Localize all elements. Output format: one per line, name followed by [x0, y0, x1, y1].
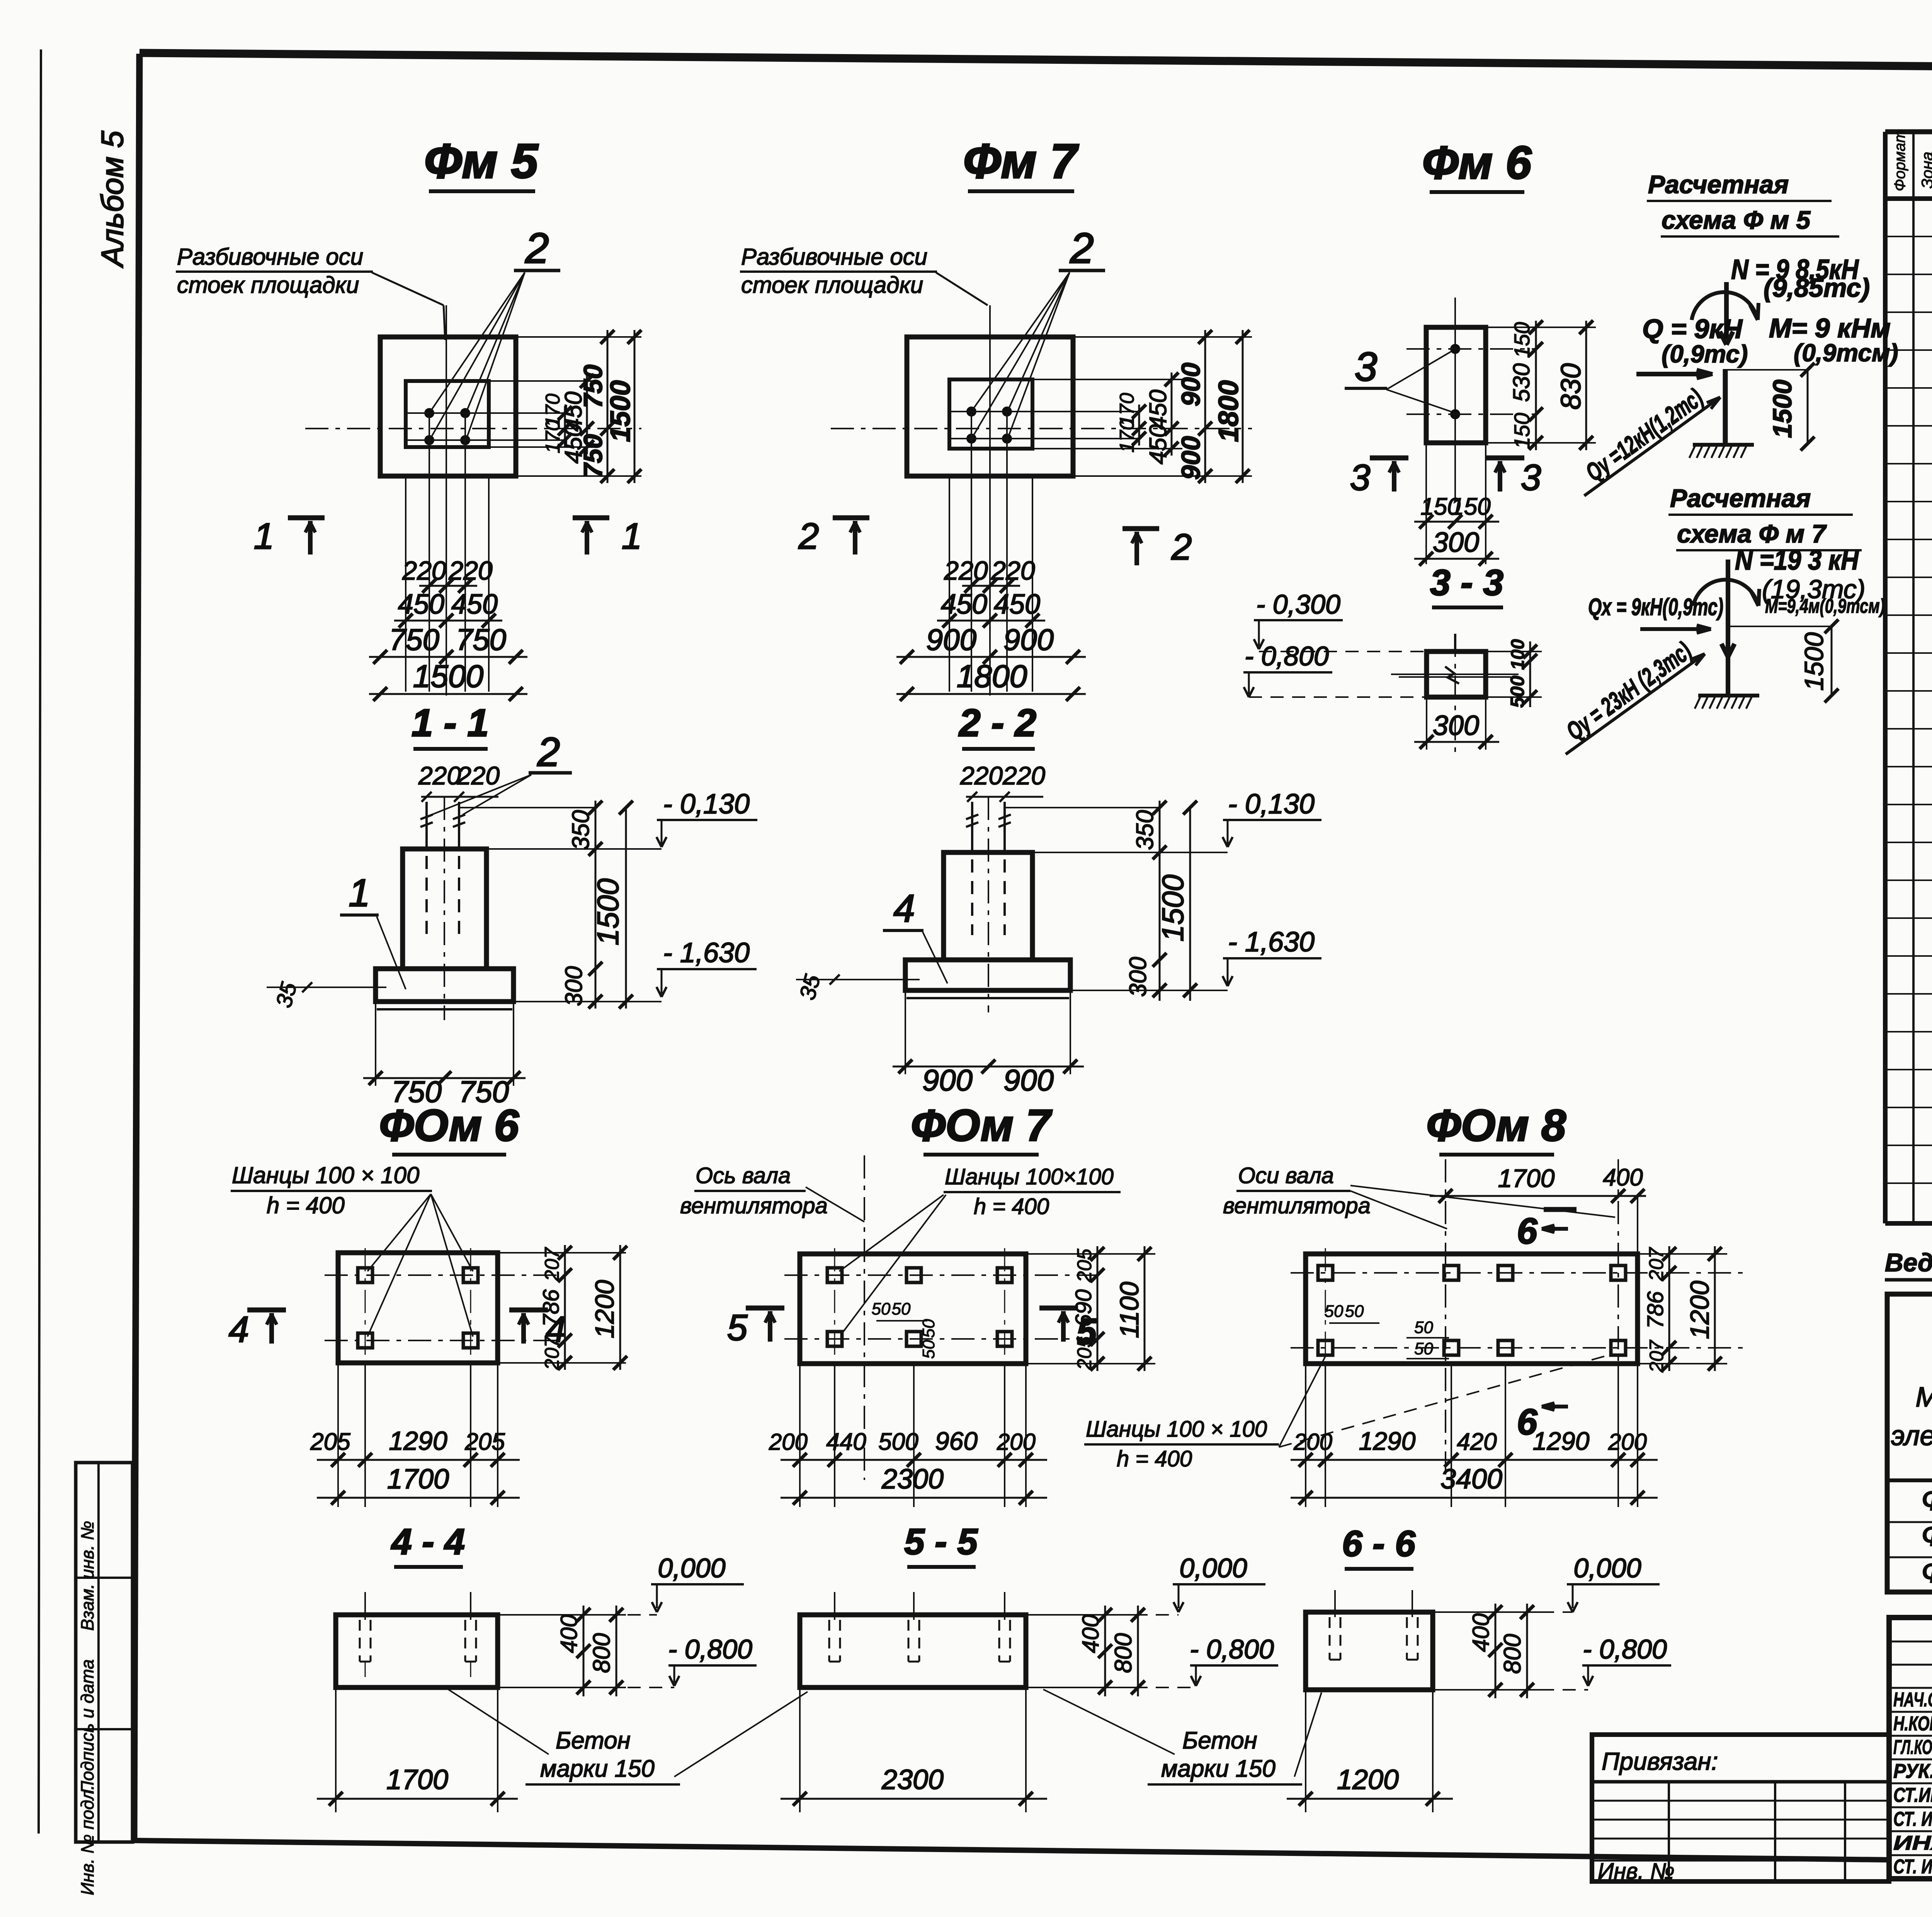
svg-text:1: 1	[254, 516, 274, 557]
svg-text:786: 786	[539, 1289, 564, 1327]
svg-text:1700: 1700	[387, 1464, 449, 1495]
svg-text:100: 100	[1508, 639, 1528, 670]
svg-text:- 0,130: - 0,130	[663, 789, 750, 820]
svg-text:(0,9тсм): (0,9тсм)	[1794, 339, 1898, 367]
svg-text:Ось вала: Ось вала	[696, 1163, 791, 1188]
svg-text:стоек площадки: стоек площадки	[741, 272, 923, 298]
svg-text:Разбивочные оси: Разбивочные оси	[741, 244, 927, 270]
svg-text:900: 900	[1003, 1063, 1054, 1097]
svg-text:170: 170	[1116, 393, 1138, 427]
svg-text:205: 205	[1073, 1336, 1096, 1371]
svg-text:2 - 2: 2 - 2	[958, 701, 1036, 745]
svg-text:НАЧ.ОТД.: НАЧ.ОТД.	[1893, 1689, 1932, 1711]
svg-text:Ведомость расхода стали на эле: Ведомость расхода стали на элемент, КГ	[1885, 1248, 1932, 1277]
svg-text:0,000: 0,000	[1179, 1553, 1247, 1583]
svg-text:2300: 2300	[881, 1764, 944, 1795]
svg-text:стоек площадки: стоек площадки	[177, 272, 359, 298]
svg-text:3: 3	[1521, 457, 1541, 498]
svg-text:- 1,630: - 1,630	[1228, 927, 1315, 958]
svg-text:N =19 3 кН: N =19 3 кН	[1735, 545, 1859, 576]
svg-text:350: 350	[1132, 810, 1158, 850]
svg-text:Формат: Формат	[1891, 130, 1908, 191]
svg-text:450: 450	[1145, 424, 1172, 464]
svg-text:200: 200	[1293, 1429, 1332, 1455]
svg-text:Шанцы 100 × 100: Шанцы 100 × 100	[1086, 1417, 1267, 1442]
svg-text:РУК.ГР.: РУК.ГР.	[1893, 1760, 1932, 1783]
svg-text:Фм 5: Фм 5	[1921, 1482, 1932, 1517]
svg-text:900: 900	[926, 623, 976, 657]
svg-text:900: 900	[1003, 623, 1054, 657]
svg-text:207: 207	[1645, 1247, 1668, 1282]
svg-text:Шанцы 100 × 100: Шанцы 100 × 100	[232, 1162, 419, 1188]
svg-text:Фм 7: Фм 7	[1921, 1555, 1932, 1589]
svg-text:Марка: Марка	[1916, 1382, 1932, 1413]
svg-text:220: 220	[457, 761, 500, 790]
svg-text:220: 220	[960, 761, 1003, 790]
svg-text:СТ. ИНЖ.: СТ. ИНЖ.	[1893, 1808, 1932, 1830]
svg-text:марки 150: марки 150	[1161, 1755, 1276, 1782]
svg-text:750: 750	[456, 623, 506, 657]
svg-text:- 0,800: - 0,800	[1190, 1634, 1274, 1664]
svg-text:800: 800	[588, 1633, 615, 1673]
svg-text:786: 786	[1643, 1291, 1668, 1329]
svg-text:2300: 2300	[881, 1464, 944, 1495]
svg-text:Взам. инв. №: Взам. инв. №	[77, 1521, 97, 1631]
svg-text:вентилятора: вентилятора	[680, 1193, 828, 1218]
svg-text:Расчетная: Расчетная	[1648, 170, 1789, 199]
svg-text:СТ.ИНЖ.: СТ.ИНЖ.	[1893, 1784, 1932, 1806]
svg-text:50: 50	[892, 1300, 911, 1318]
svg-text:Фм 6: Фм 6	[1422, 137, 1532, 189]
svg-text:Зона: Зона	[1918, 151, 1932, 189]
svg-text:3 - 3: 3 - 3	[1430, 562, 1503, 603]
svg-text:690: 690	[1071, 1289, 1096, 1327]
svg-text:схема Ф м 5: схема Ф м 5	[1662, 206, 1811, 234]
svg-text:Фм 6: Фм 6	[1921, 1518, 1932, 1552]
svg-text:420: 420	[1457, 1429, 1497, 1455]
svg-text:900: 900	[1176, 436, 1206, 480]
svg-text:1500: 1500	[1799, 632, 1829, 691]
svg-text:Q = 9кН: Q = 9кН	[1642, 314, 1743, 344]
svg-text:Разбивочные оси: Разбивочные оси	[177, 244, 363, 270]
svg-text:Бетон: Бетон	[556, 1727, 631, 1754]
svg-text:450: 450	[994, 589, 1040, 620]
svg-text:1290: 1290	[1359, 1427, 1416, 1455]
svg-text:220: 220	[418, 761, 461, 790]
svg-text:1500: 1500	[591, 878, 625, 946]
svg-text:300: 300	[1433, 710, 1479, 741]
svg-text:530: 530	[1509, 363, 1534, 402]
svg-text:h = 400: h = 400	[267, 1192, 345, 1218]
svg-text:50: 50	[872, 1300, 891, 1318]
svg-text:300: 300	[1433, 527, 1479, 558]
svg-text:4: 4	[229, 1309, 249, 1350]
svg-text:400: 400	[1468, 1613, 1494, 1652]
svg-text:ФОм 8: ФОм 8	[1426, 1101, 1566, 1150]
svg-text:Оси вала: Оси вала	[1238, 1163, 1334, 1188]
svg-text:205: 205	[464, 1429, 505, 1455]
svg-text:220: 220	[402, 556, 446, 585]
svg-text:220: 220	[944, 556, 988, 585]
svg-text:50: 50	[919, 1319, 938, 1338]
svg-text:1290: 1290	[389, 1426, 447, 1456]
svg-text:500: 500	[1507, 675, 1528, 708]
svg-text:1: 1	[349, 871, 370, 915]
svg-text:1 - 1: 1 - 1	[412, 701, 489, 745]
svg-text:(9,85тс): (9,85тс)	[1764, 273, 1870, 303]
svg-text:900: 900	[922, 1063, 973, 1097]
svg-text:750: 750	[578, 434, 608, 478]
svg-text:Привязан:: Привязан:	[1602, 1747, 1718, 1775]
svg-text:3400: 3400	[1440, 1464, 1502, 1495]
svg-text:Инв. № подл.: Инв. № подл.	[77, 1785, 97, 1895]
svg-text:- 0,800: - 0,800	[1583, 1634, 1667, 1664]
svg-text:Фм 5: Фм 5	[424, 134, 539, 188]
svg-text:1500: 1500	[1768, 379, 1797, 438]
svg-text:1500: 1500	[605, 380, 636, 442]
svg-text:207: 207	[541, 1336, 563, 1371]
svg-text:5: 5	[727, 1307, 748, 1348]
svg-text:1700: 1700	[386, 1764, 448, 1795]
svg-text:- 0,300: - 0,300	[1256, 589, 1340, 619]
svg-text:Бетон: Бетон	[1182, 1727, 1257, 1754]
svg-text:440: 440	[826, 1429, 866, 1455]
svg-text:150: 150	[1451, 493, 1490, 520]
svg-text:(0,9тс): (0,9тс)	[1662, 340, 1748, 368]
svg-text:5 - 5: 5 - 5	[904, 1521, 978, 1562]
svg-text:50: 50	[1345, 1302, 1364, 1321]
svg-text:0,000: 0,000	[658, 1553, 725, 1583]
svg-text:2: 2	[798, 516, 819, 557]
svg-text:1800: 1800	[957, 659, 1027, 694]
svg-text:750: 750	[578, 364, 608, 408]
svg-text:схема Ф м 7: схема Ф м 7	[1677, 519, 1827, 548]
svg-text:Qх = 9кН(0,9тс): Qх = 9кН(0,9тс)	[1588, 594, 1723, 621]
svg-text:2: 2	[525, 225, 549, 272]
svg-text:1500: 1500	[1156, 874, 1190, 942]
svg-text:марки 150: марки 150	[540, 1755, 655, 1782]
svg-text:h = 400: h = 400	[974, 1194, 1049, 1219]
svg-text:1200: 1200	[590, 1280, 619, 1338]
svg-text:1500: 1500	[413, 659, 483, 694]
svg-text:Шанцы 100×100: Шанцы 100×100	[945, 1164, 1114, 1189]
svg-text:150: 150	[1510, 322, 1534, 358]
svg-text:50: 50	[1414, 1339, 1433, 1358]
svg-text:Инв. №: Инв. №	[1598, 1859, 1675, 1884]
svg-text:200: 200	[769, 1429, 808, 1455]
svg-text:450: 450	[398, 589, 444, 620]
svg-text:960: 960	[935, 1427, 978, 1455]
svg-text:элемента: элемента	[1891, 1420, 1932, 1451]
svg-text:400: 400	[556, 1614, 582, 1653]
svg-text:ГЛ.КОНСТ.: ГЛ.КОНСТ.	[1893, 1736, 1932, 1759]
svg-text:M=9,4м(0,9тсм): M=9,4м(0,9тсм)	[1765, 595, 1885, 617]
svg-text:ФОм 6: ФОм 6	[379, 1101, 519, 1150]
svg-text:450: 450	[941, 589, 987, 620]
svg-text:830: 830	[1556, 363, 1587, 410]
svg-text:800: 800	[1110, 1633, 1137, 1673]
svg-text:450: 450	[451, 589, 498, 620]
svg-text:200: 200	[997, 1429, 1036, 1455]
svg-text:1800: 1800	[1213, 380, 1244, 442]
svg-text:Н.КОНТР.: Н.КОНТР.	[1893, 1713, 1932, 1735]
svg-text:3: 3	[1350, 457, 1371, 498]
svg-text:1700: 1700	[1498, 1164, 1555, 1192]
svg-text:2: 2	[1070, 225, 1094, 272]
svg-text:ФОм 7: ФОм 7	[911, 1101, 1053, 1150]
svg-text:Расчетная: Расчетная	[1670, 484, 1811, 512]
svg-text:220: 220	[1002, 761, 1045, 790]
svg-text:1100: 1100	[1115, 1282, 1144, 1338]
svg-text:205: 205	[1073, 1249, 1096, 1283]
svg-text:1290: 1290	[1533, 1427, 1590, 1455]
svg-text:350: 350	[568, 810, 594, 850]
svg-text:ИНЖ.: ИНЖ.	[1893, 1832, 1932, 1854]
svg-text:205: 205	[310, 1429, 350, 1455]
svg-text:вентилятора: вентилятора	[1223, 1193, 1371, 1218]
svg-text:2: 2	[1171, 527, 1192, 568]
svg-text:1: 1	[622, 516, 642, 557]
svg-text:50: 50	[1414, 1318, 1433, 1337]
svg-text:300: 300	[561, 966, 587, 1006]
svg-text:h = 400: h = 400	[1117, 1446, 1192, 1471]
svg-text:6 - 6: 6 - 6	[1342, 1523, 1416, 1564]
svg-text:200: 200	[1608, 1429, 1647, 1455]
svg-text:Подпись и дата: Подпись и дата	[77, 1659, 97, 1794]
svg-text:- 0,130: - 0,130	[1228, 789, 1315, 820]
svg-text:50: 50	[919, 1340, 938, 1359]
svg-text:400: 400	[1078, 1614, 1104, 1653]
svg-text:- 1,630: - 1,630	[663, 937, 750, 968]
svg-text:750: 750	[389, 623, 439, 657]
svg-text:- 0,800: - 0,800	[1245, 641, 1329, 671]
svg-text:50: 50	[1325, 1302, 1344, 1321]
svg-text:Фм 7: Фм 7	[963, 134, 1079, 188]
svg-text:207: 207	[1646, 1339, 1667, 1373]
svg-text:800: 800	[1499, 1634, 1526, 1674]
svg-text:0,000: 0,000	[1573, 1553, 1641, 1583]
svg-text:СТ. ИНЖ.: СТ. ИНЖ.	[1893, 1856, 1932, 1878]
svg-text:3: 3	[1355, 344, 1377, 390]
svg-text:6: 6	[1517, 1211, 1538, 1252]
svg-text:400: 400	[1603, 1164, 1643, 1191]
svg-text:900: 900	[1176, 362, 1206, 407]
svg-text:4: 4	[893, 887, 915, 930]
svg-text:Альбом 5: Альбом 5	[95, 131, 129, 268]
svg-text:500: 500	[878, 1429, 918, 1455]
svg-text:4 - 4: 4 - 4	[391, 1521, 465, 1562]
svg-text:207: 207	[541, 1247, 563, 1282]
svg-text:2: 2	[537, 730, 560, 775]
svg-text:150: 150	[1510, 413, 1534, 449]
svg-text:450: 450	[1145, 390, 1172, 429]
svg-text:- 0,800: - 0,800	[668, 1634, 752, 1664]
svg-text:1200: 1200	[1337, 1764, 1399, 1795]
svg-text:1200: 1200	[1685, 1281, 1714, 1339]
